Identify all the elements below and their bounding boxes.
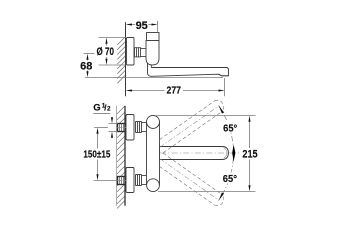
upper swivel position (dashed)	[160, 100, 224, 152]
body cap (side view)	[147, 33, 160, 41]
svg-text:68: 68	[80, 60, 92, 72]
svg-text:65°: 65°	[223, 122, 237, 134]
top escutcheon (front view)	[126, 115, 134, 141]
swivel arc (dash-dot)	[218, 106, 233, 201]
svg-text:95: 95	[136, 20, 148, 32]
wall hatch (side view)	[117, 37, 125, 84]
wall back line (front view)	[116, 106, 118, 206]
label 65 lower	[223, 173, 239, 184]
label G 1/2	[93, 103, 111, 114]
svg-text:65°: 65°	[223, 173, 237, 185]
svg-text:G: G	[93, 103, 100, 114]
body top circle (front view)	[147, 115, 160, 128]
top neck (front view)	[141, 123, 146, 132]
top nipple (front view)	[117, 124, 127, 132]
body column (front view)	[147, 122, 160, 185]
arc double arrowhead at centerline	[232, 145, 235, 154]
svg-text:215: 215	[242, 149, 257, 161]
svg-text:277: 277	[167, 85, 182, 97]
wall face line (front view)	[124, 106, 126, 206]
arc arrowhead upper	[219, 105, 225, 113]
svg-text:Ø 70: Ø 70	[97, 46, 115, 58]
arc arrowhead lower	[219, 193, 225, 201]
lower swivel centerline (dash-dot)	[160, 159, 219, 200]
dim 68	[80, 54, 223, 78]
lower swivel position (dashed)	[160, 153, 224, 205]
aerator (side view)	[219, 74, 229, 76]
wall hatch (front view)	[117, 106, 125, 208]
svg-text:150±15: 150±15	[83, 149, 110, 161]
dim 277	[126, 78, 225, 97]
dim 215	[156, 116, 258, 192]
bottom nipple (front view)	[117, 177, 127, 185]
body bottom circle (front view)	[147, 179, 160, 192]
top hex nut (front view)	[136, 122, 142, 133]
faucet body (side view)	[146, 41, 159, 66]
dim G1/2 arrows	[109, 117, 118, 138]
label 65 upper	[223, 122, 239, 133]
spout end inner contour	[224, 148, 228, 159]
spout (front view)	[160, 147, 229, 160]
bottom escutcheon (front view)	[126, 168, 134, 193]
dim 95	[126, 20, 158, 32]
spout (side view)	[148, 64, 229, 77]
dim 150±15	[83, 128, 117, 181]
wall line (side view)	[125, 22, 127, 96]
spout centerline (dash-dot)	[160, 152, 241, 154]
dim Ø70	[97, 38, 127, 66]
bottom neck (front view)	[141, 176, 146, 185]
bottom hex nut (front view)	[136, 175, 142, 186]
upper swivel centerline (dash-dot)	[160, 106, 219, 147]
nut (side view)	[135, 48, 141, 57]
neck cylinder (side view)	[141, 49, 147, 57]
escutcheon (side view)	[127, 38, 135, 66]
